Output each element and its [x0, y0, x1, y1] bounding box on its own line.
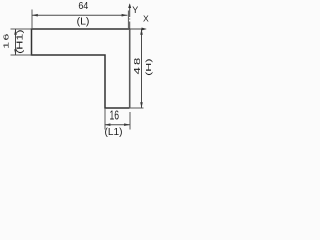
svg-text:16: 16	[3, 32, 11, 49]
svg-text:(L1): (L1)	[105, 127, 123, 138]
svg-text:16: 16	[109, 109, 119, 123]
svg-text:64: 64	[78, 0, 89, 12]
svg-text:48: 48	[133, 56, 142, 75]
svg-text:Y: Y	[132, 5, 138, 15]
svg-text:(H): (H)	[145, 58, 153, 75]
svg-text:(H1): (H1)	[16, 29, 25, 53]
svg-text:X: X	[143, 13, 149, 23]
svg-text:(L): (L)	[77, 17, 90, 28]
